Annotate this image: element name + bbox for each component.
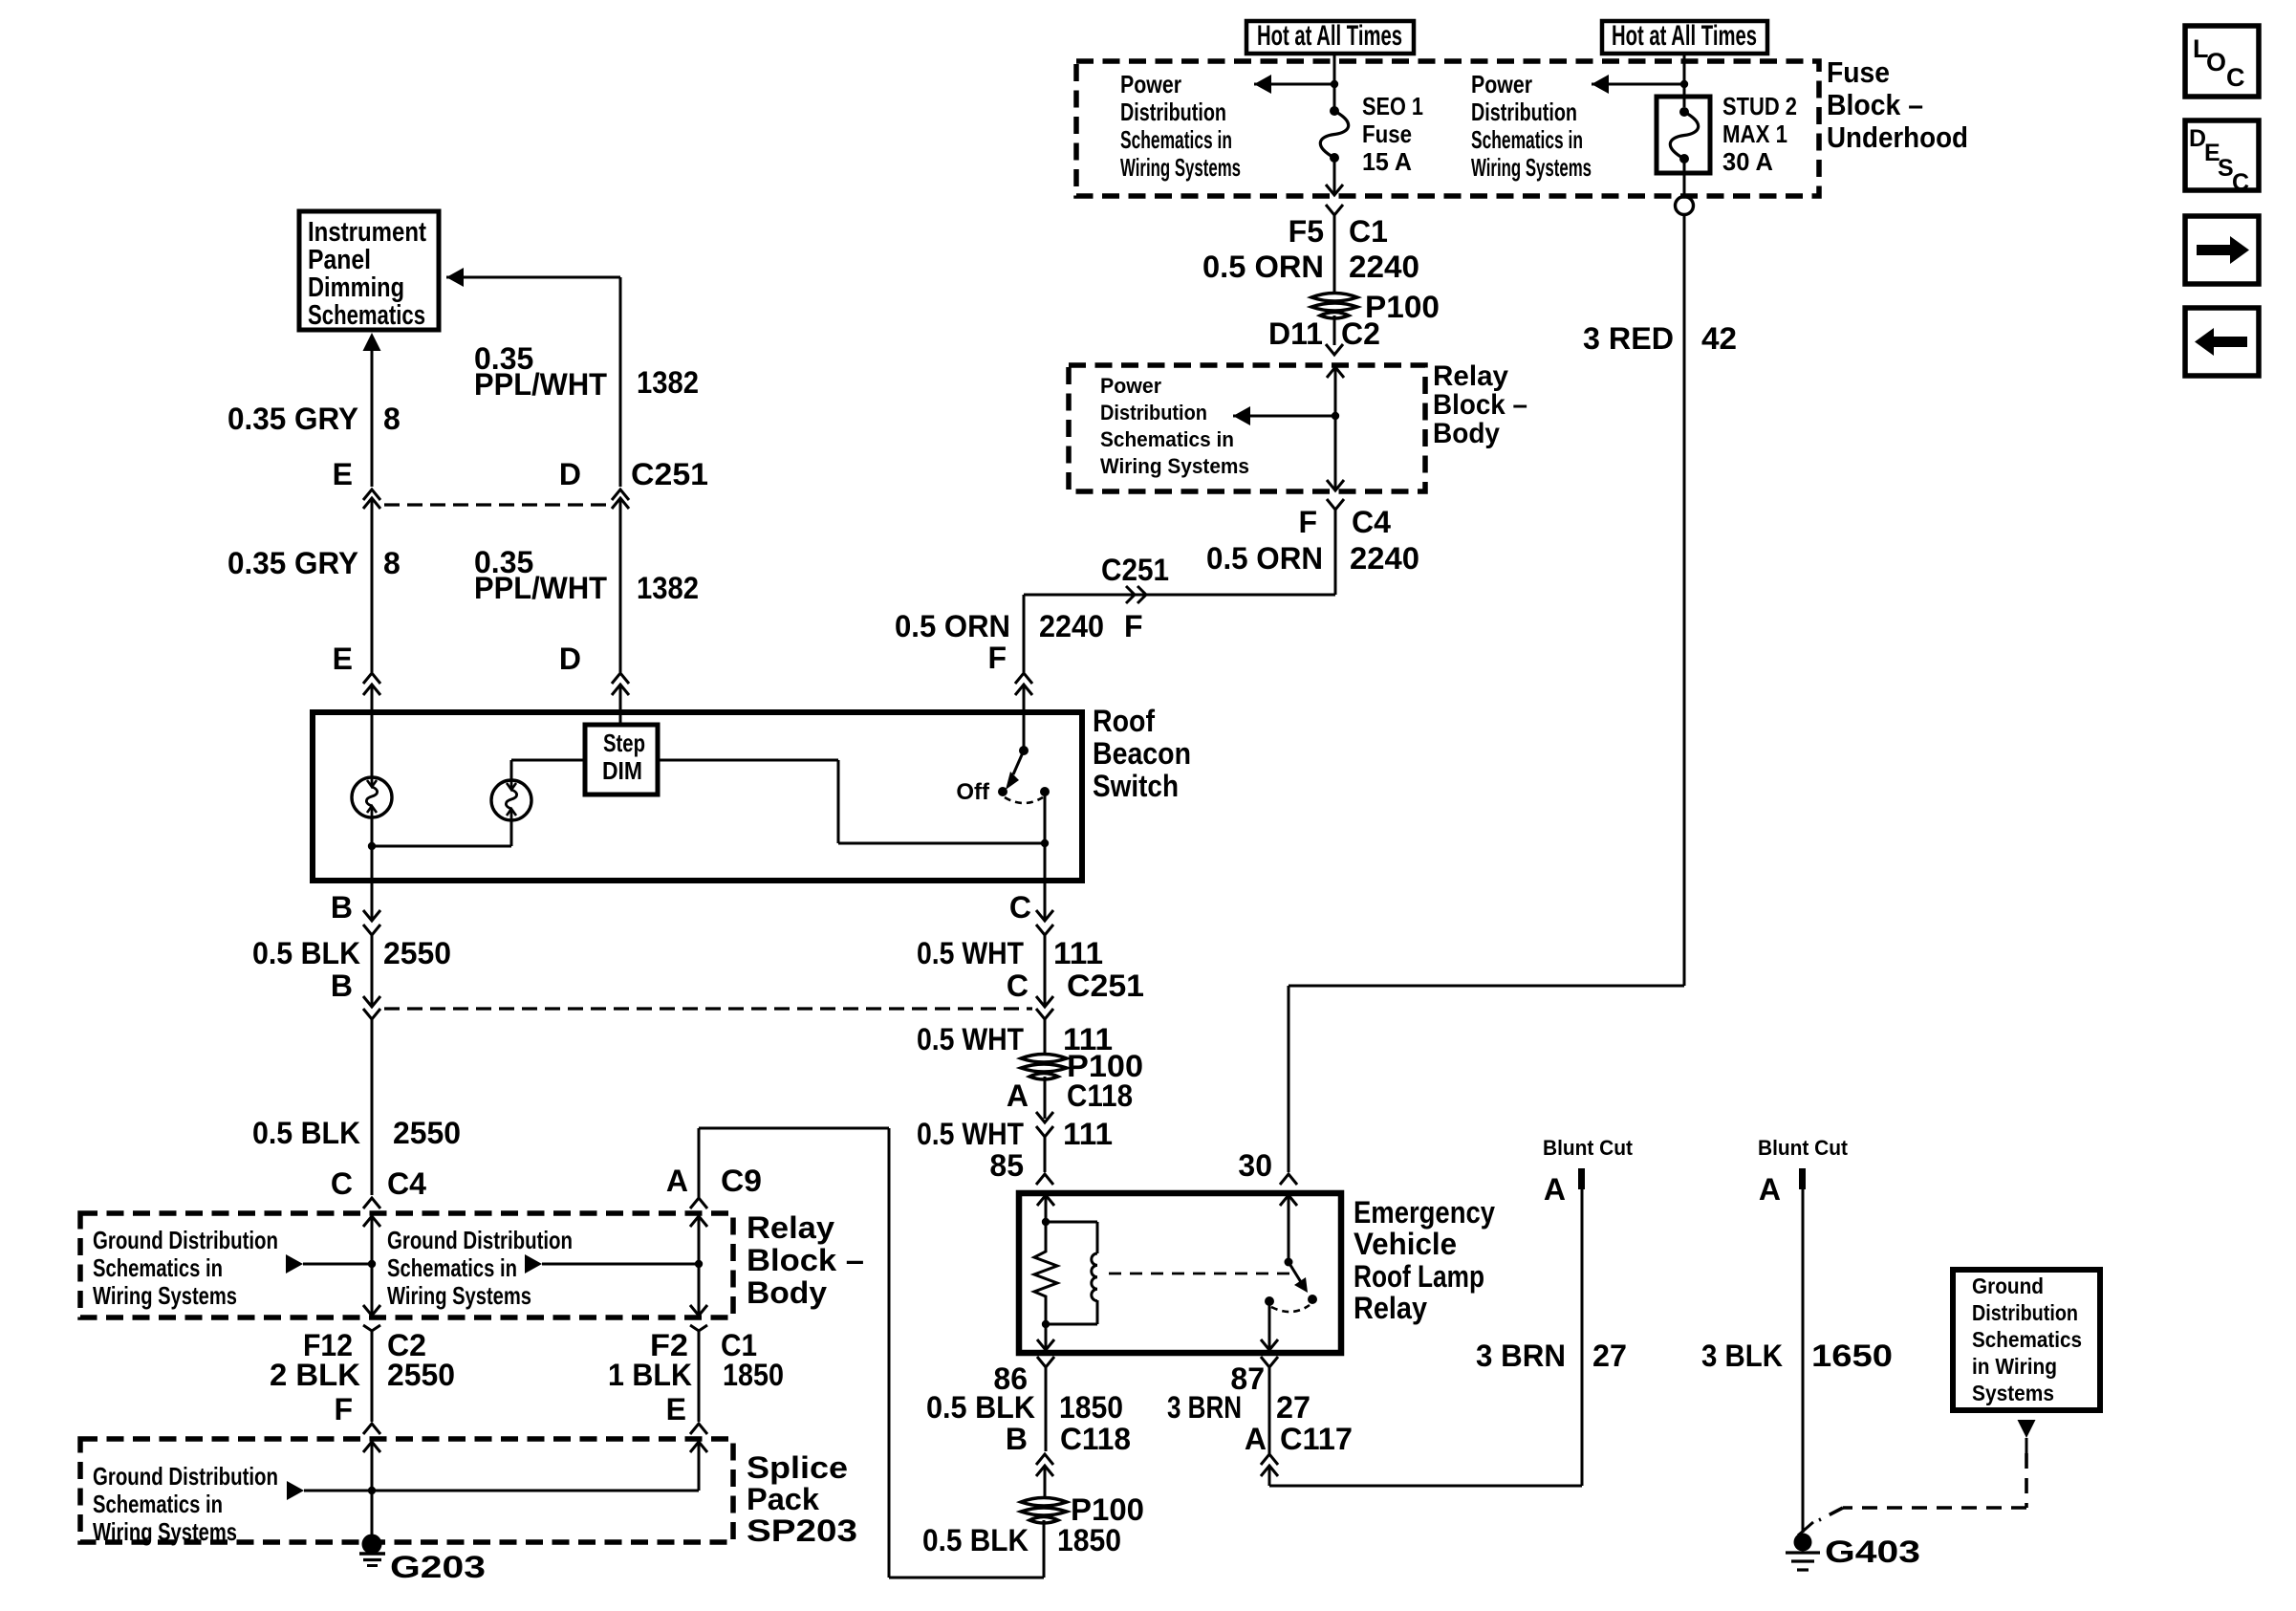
svg-text:0.5 BLK: 0.5 BLK: [252, 1116, 360, 1150]
svg-text:0.5 WHT: 0.5 WHT: [917, 1022, 1024, 1056]
DESC index box: [2185, 120, 2259, 190]
wire to connector C118: [1044, 1077, 1047, 1119]
svg-text:0.5 WHT: 0.5 WHT: [917, 1117, 1024, 1151]
svg-text:1650: 1650: [1811, 1339, 1893, 1373]
relay resistor: [1034, 1222, 1057, 1324]
svg-text:C251: C251: [1067, 969, 1144, 1003]
svg-text:B: B: [331, 969, 353, 1003]
junction node on SEO 1 feed: [1331, 80, 1338, 88]
Hot at All Times box (left): [1246, 21, 1414, 54]
switch on contact: [1040, 787, 1050, 796]
coil to contact dashed coupling: [1109, 1273, 1292, 1275]
svg-text:27: 27: [1276, 1390, 1310, 1425]
wire A C9 leg and entry arrow: [690, 1216, 707, 1227]
svg-text:Schematics in: Schematics in: [387, 1253, 517, 1282]
svg-text:Panel: Panel: [308, 245, 371, 275]
svg-text:C: C: [2232, 169, 2249, 196]
Hot at All Times box (right): [1602, 21, 1767, 54]
svg-text:Schematics: Schematics: [308, 300, 425, 331]
beacon lamp 1: [352, 777, 392, 817]
svg-text:Off: Off: [956, 779, 990, 805]
svg-text:Fuse: Fuse: [1362, 120, 1412, 148]
svg-text:C4: C4: [1352, 505, 1391, 539]
ground distribution schematics box (solid): [1953, 1270, 2100, 1410]
svg-text:Block –: Block –: [1827, 88, 1923, 121]
svg-text:C: C: [1007, 969, 1029, 1003]
svg-text:Underhood: Underhood: [1827, 120, 1968, 154]
connector E into splice pack: [690, 1424, 707, 1434]
wire 0.5 ORN 2240 (fuse to P100): [1333, 250, 1336, 295]
svg-text:Schematics in: Schematics in: [93, 1490, 223, 1518]
entry arrow splice right: [690, 1442, 707, 1452]
svg-text:F: F: [1124, 609, 1143, 643]
back arrow box: [2185, 308, 2259, 376]
svg-text:8: 8: [383, 546, 401, 580]
svg-text:Schematics: Schematics: [1972, 1327, 2082, 1352]
svg-text:Dimming: Dimming: [308, 272, 404, 303]
ground reference arrow (left): [286, 1254, 303, 1274]
svg-text:C251: C251: [631, 457, 708, 491]
connector A C118: [1036, 1112, 1053, 1122]
svg-text:A: A: [1245, 1422, 1267, 1456]
svg-text:C: C: [2226, 63, 2245, 92]
junction node in relay block: [1332, 412, 1339, 420]
splice pack SP203 dashed box: [80, 1439, 733, 1542]
wire 3 RED 42 down to relay 30: [1683, 214, 1686, 986]
svg-text:A: A: [666, 1164, 688, 1198]
svg-text:C4: C4: [387, 1166, 426, 1201]
connector F5 C1: [1326, 205, 1343, 215]
svg-text:Step: Step: [603, 729, 645, 757]
svg-text:42: 42: [1701, 321, 1737, 356]
svg-text:E: E: [666, 1392, 686, 1426]
Step DIM box: [585, 725, 658, 795]
forward arrow box: [2185, 216, 2259, 284]
svg-text:3 BRN: 3 BRN: [1167, 1390, 1242, 1425]
junction node coil bottom: [1042, 1320, 1050, 1328]
switch common contact: [1019, 746, 1029, 755]
exit arrow A C9 leg: [690, 1305, 707, 1316]
wire SEO1 fuse to fuse block edge: [1333, 158, 1336, 195]
wire through relay block body: [1327, 367, 1344, 378]
svg-text:0.5 ORN: 0.5 ORN: [1202, 250, 1324, 284]
svg-text:Distribution: Distribution: [1120, 98, 1226, 126]
svg-text:Roof: Roof: [1093, 704, 1155, 738]
svg-text:1850: 1850: [723, 1358, 784, 1392]
svg-text:Block –: Block –: [1433, 389, 1527, 421]
svg-text:0.5 ORN: 0.5 ORN: [1206, 541, 1323, 576]
pass-through grommet P100 (middle): [1021, 1055, 1067, 1063]
relay moving arm: [1289, 1262, 1301, 1282]
dashed contact arc: [1271, 1305, 1310, 1312]
svg-text:2550: 2550: [393, 1116, 461, 1150]
reference arrow to power distribution schematics (left): [1254, 83, 1334, 86]
svg-text:SP203: SP203: [747, 1513, 857, 1548]
svg-text:C2: C2: [1341, 316, 1380, 351]
svg-text:111: 111: [1063, 1117, 1113, 1151]
svg-text:2240: 2240: [1349, 250, 1419, 284]
svg-text:3 BRN: 3 BRN: [1476, 1339, 1566, 1373]
connector F C4: [1327, 499, 1344, 510]
ground reference arrow (second): [525, 1254, 542, 1274]
svg-text:E: E: [333, 457, 353, 491]
svg-text:Relay: Relay: [747, 1210, 834, 1245]
svg-text:Wiring Systems: Wiring Systems: [93, 1281, 237, 1310]
wire from A C9 up and over to relay 86 return: [698, 1128, 701, 1199]
relay pin 87 exit: [1268, 1301, 1271, 1350]
junction node switch output: [1041, 839, 1049, 847]
svg-text:Wiring Systems: Wiring Systems: [387, 1281, 531, 1310]
svg-text:F5: F5: [1289, 214, 1324, 249]
svg-text:D11: D11: [1268, 316, 1323, 351]
svg-text:D: D: [559, 642, 581, 676]
svg-text:Distribution: Distribution: [1972, 1300, 2078, 1325]
LOC index box: [2185, 26, 2259, 97]
svg-text:MAX 1: MAX 1: [1722, 120, 1787, 148]
svg-text:Power: Power: [1471, 70, 1532, 98]
wire from arrow corner down to D connector: [619, 277, 622, 487]
connector B at C251 (lower dashed line): [371, 995, 374, 1007]
relay pin 86 exit: [1045, 1324, 1048, 1350]
svg-text:Roof Lamp: Roof Lamp: [1354, 1259, 1484, 1294]
arrow into instrument panel box: [446, 276, 620, 279]
relay pivot contact: [1285, 1258, 1293, 1267]
connector C C4 into relay block body: [363, 1198, 380, 1208]
svg-text:85: 85: [989, 1148, 1024, 1183]
pass-through grommet P100 (top): [1311, 294, 1357, 302]
svg-text:Systems: Systems: [1972, 1381, 2054, 1405]
svg-text:A: A: [1544, 1172, 1566, 1207]
svg-text:Schematics in: Schematics in: [93, 1253, 223, 1282]
relay stationary contact 87: [1265, 1296, 1274, 1306]
svg-text:0.35 GRY: 0.35 GRY: [227, 402, 358, 436]
svg-text:1850: 1850: [1057, 1523, 1121, 1557]
svg-text:2240: 2240: [1350, 541, 1419, 576]
exit arrow relay block bottom: [1327, 480, 1344, 490]
dashed connector line C251 (upper): [384, 503, 608, 506]
entry arrow splice left: [363, 1442, 380, 1452]
svg-text:27: 27: [1592, 1339, 1627, 1373]
connector D at C251: [612, 490, 629, 500]
arrow from wire 8 into instrument panel box: [363, 333, 381, 351]
fuse block - underhood dashed box: [1076, 61, 1819, 196]
fuse SEO 1 15 A: [1330, 106, 1339, 116]
svg-text:0.35 GRY: 0.35 GRY: [227, 546, 358, 580]
svg-text:Ground Distribution: Ground Distribution: [93, 1462, 278, 1491]
svg-text:Distribution: Distribution: [1471, 98, 1577, 126]
svg-text:Relay: Relay: [1433, 360, 1508, 392]
svg-text:Blunt Cut: Blunt Cut: [1758, 1136, 1849, 1160]
connector C at C251: [1044, 995, 1047, 1007]
svg-text:Schematics in: Schematics in: [1120, 125, 1232, 154]
connector E at C251 (left): [363, 490, 380, 500]
dashed connector line C251 (lower): [384, 1007, 1032, 1010]
ring terminal: [1676, 197, 1694, 215]
pass-through grommet P100 (bottom): [1021, 1498, 1067, 1507]
junction node coil top: [1042, 1218, 1050, 1226]
connector D into switch: [612, 673, 629, 684]
svg-text:Ground Distribution: Ground Distribution: [387, 1226, 573, 1254]
svg-text:C1: C1: [1349, 214, 1388, 249]
svg-text:Wiring Systems: Wiring Systems: [93, 1517, 237, 1546]
svg-text:PPL/WHT: PPL/WHT: [474, 571, 607, 605]
relay block - body dashed box (upper): [1069, 365, 1425, 491]
svg-text:Wiring Systems: Wiring Systems: [1120, 153, 1241, 182]
wire from left Hot at All Times into fuse block: [1333, 54, 1336, 108]
svg-text:0.5 ORN: 0.5 ORN: [895, 609, 1010, 643]
wire to blunt cut 1: [1269, 1485, 1582, 1488]
svg-text:Power: Power: [1100, 374, 1161, 398]
relay pin 87 connector below: [1261, 1357, 1278, 1367]
svg-text:D: D: [559, 457, 581, 491]
wire Step DIM to switch contact: [658, 759, 838, 762]
svg-text:Pack: Pack: [747, 1482, 819, 1516]
svg-text:DIM: DIM: [602, 756, 642, 785]
reference arrow to power distribution schematics (relay block): [1233, 415, 1335, 418]
instrument panel dimming schematics box: [299, 211, 439, 330]
svg-text:F: F: [987, 641, 1007, 675]
junction node ground right: [695, 1260, 703, 1268]
switch pin C connector: [1044, 881, 1047, 921]
fuse STUD 2 MAX 1 30 A box: [1657, 97, 1710, 173]
svg-text:1850: 1850: [1059, 1390, 1123, 1425]
switch moving arm: [1013, 751, 1024, 774]
wire 3 BLK 1650 to ground G403: [1802, 1189, 1805, 1533]
wire P100 to connector C2: [1333, 316, 1336, 345]
svg-text:SEO 1: SEO 1: [1362, 92, 1423, 120]
svg-text:C118: C118: [1067, 1078, 1133, 1113]
relay pin 85 inside arrow: [1037, 1195, 1054, 1206]
wire lamp junction down to pin B: [371, 846, 374, 881]
svg-text:0.5 BLK: 0.5 BLK: [926, 1390, 1035, 1425]
svg-text:A: A: [1759, 1172, 1781, 1207]
beacon lamp 2: [491, 780, 531, 820]
svg-text:Body: Body: [1433, 418, 1500, 449]
svg-text:Fuse: Fuse: [1827, 55, 1890, 89]
relay block - body dashed box (lower): [80, 1213, 733, 1317]
svg-text:O: O: [2206, 48, 2226, 76]
svg-text:8: 8: [383, 402, 401, 436]
svg-text:1382: 1382: [637, 365, 699, 400]
svg-text:B: B: [331, 890, 353, 925]
svg-text:3 RED: 3 RED: [1583, 321, 1674, 356]
svg-text:Emergency: Emergency: [1354, 1195, 1495, 1230]
svg-text:A: A: [1007, 1078, 1029, 1113]
svg-text:F: F: [334, 1392, 353, 1426]
svg-text:Vehicle: Vehicle: [1354, 1227, 1457, 1261]
svg-text:PPL/WHT: PPL/WHT: [474, 367, 607, 402]
exit arrow left wire: [363, 1305, 380, 1316]
svg-text:2550: 2550: [387, 1358, 455, 1392]
switch pin B connector: [371, 881, 374, 921]
svg-text:G203: G203: [390, 1550, 486, 1584]
emergency vehicle roof lamp relay box: [1019, 1193, 1341, 1353]
svg-text:C251: C251: [1101, 553, 1169, 587]
connector F into splice pack: [363, 1424, 380, 1434]
relay arm tip contact: [1308, 1295, 1317, 1304]
arrow from ground distribution box: [2018, 1420, 2036, 1438]
svg-text:2550: 2550: [383, 936, 451, 970]
svg-text:B: B: [1006, 1422, 1028, 1456]
relay pin 86 connector below: [1037, 1357, 1054, 1367]
entry arrow left wire: [363, 1216, 380, 1227]
svg-text:Schematics in: Schematics in: [1100, 427, 1234, 451]
connector E into switch: [363, 673, 380, 684]
svg-text:Distribution: Distribution: [1100, 401, 1207, 425]
svg-text:Body: Body: [747, 1275, 827, 1310]
svg-text:P100: P100: [1071, 1492, 1144, 1527]
wire STUD 2 to ring terminal: [1683, 159, 1686, 196]
svg-text:Hot at All Times: Hot at All Times: [1257, 20, 1402, 52]
ground G403: [1794, 1534, 1812, 1552]
dashed reference to G403: [2025, 1453, 2028, 1508]
inline connector C251 pin F (horizontal): [1126, 586, 1135, 603]
connector A C9 chevrons: [690, 1198, 707, 1208]
svg-text:C118: C118: [1060, 1422, 1131, 1456]
connector switch pin F: [1015, 673, 1032, 684]
wire on-contact to output junction: [1044, 792, 1047, 843]
wire lamp1 bottom to junction: [371, 817, 374, 846]
ground G203: [362, 1535, 382, 1555]
connector A C117: [1261, 1454, 1278, 1465]
relay coil: [1096, 1222, 1099, 1253]
switch Off contact: [998, 787, 1007, 796]
svg-text:STUD 2: STUD 2: [1722, 92, 1797, 120]
junction node on STUD 2 feed: [1680, 80, 1688, 88]
svg-text:Relay: Relay: [1354, 1291, 1427, 1325]
connector B C118: [1036, 1454, 1053, 1465]
svg-text:C117: C117: [1280, 1422, 1353, 1456]
svg-text:in Wiring: in Wiring: [1972, 1354, 2057, 1379]
svg-text:Wiring Systems: Wiring Systems: [1100, 454, 1249, 478]
svg-text:G403: G403: [1825, 1535, 1920, 1569]
junction node ground left: [368, 1260, 376, 1268]
svg-text:F: F: [1298, 505, 1317, 539]
svg-text:1382: 1382: [637, 571, 699, 605]
svg-text:Wiring Systems: Wiring Systems: [1471, 153, 1592, 182]
wire lamp junction to lamp2: [372, 845, 511, 848]
svg-text:Schematics in: Schematics in: [1471, 125, 1583, 154]
svg-text:0.5 BLK: 0.5 BLK: [922, 1523, 1029, 1557]
svg-text:0.5 BLK: 0.5 BLK: [252, 936, 360, 970]
svg-text:Beacon: Beacon: [1093, 736, 1191, 771]
ground reference arrow (splice): [287, 1481, 304, 1500]
svg-text:2240: 2240: [1039, 609, 1104, 643]
reference arrow to power distribution schematics (right): [1592, 83, 1684, 86]
wire 0.5 BLK 1850 to ground leg: [1043, 1520, 1046, 1578]
fuse element STUD 2: [1679, 107, 1689, 117]
svg-text:Instrument: Instrument: [308, 217, 426, 248]
wire from right Hot at All Times to STUD 2: [1683, 54, 1686, 107]
junction node lamps: [368, 842, 376, 850]
svg-text:30: 30: [1238, 1148, 1272, 1183]
svg-text:0.5 WHT: 0.5 WHT: [917, 936, 1024, 970]
svg-text:C9: C9: [721, 1164, 762, 1198]
svg-text:3 BLK: 3 BLK: [1701, 1339, 1783, 1373]
svg-text:1 BLK: 1 BLK: [608, 1358, 692, 1392]
svg-text:Ground: Ground: [1972, 1274, 2044, 1298]
junction node splice: [368, 1487, 376, 1494]
svg-text:E: E: [333, 642, 353, 676]
svg-text:Ground Distribution: Ground Distribution: [93, 1226, 278, 1254]
svg-text:Splice: Splice: [747, 1450, 848, 1485]
svg-text:C: C: [331, 1166, 353, 1201]
svg-text:Block –: Block –: [747, 1243, 864, 1277]
svg-text:Blunt Cut: Blunt Cut: [1543, 1136, 1634, 1160]
svg-text:111: 111: [1053, 936, 1103, 970]
roof beacon switch box: [313, 712, 1082, 881]
dashed travel arc: [1005, 797, 1043, 803]
svg-text:15 A: 15 A: [1362, 147, 1412, 176]
svg-text:C: C: [1009, 890, 1031, 925]
svg-text:30 A: 30 A: [1722, 147, 1773, 176]
svg-text:Power: Power: [1120, 70, 1181, 98]
relay pin 30 inside arrow: [1280, 1195, 1297, 1206]
svg-text:Switch: Switch: [1093, 769, 1179, 803]
svg-text:Hot at All Times: Hot at All Times: [1612, 20, 1757, 52]
wire lamp2 top to Step DIM: [510, 760, 513, 780]
svg-text:2 BLK: 2 BLK: [270, 1358, 360, 1392]
